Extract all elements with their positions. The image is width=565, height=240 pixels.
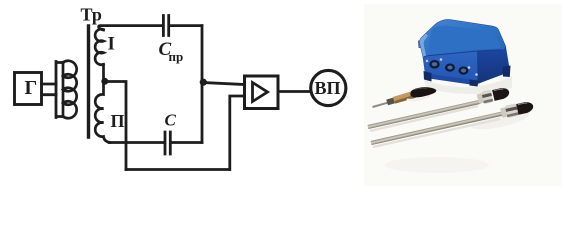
box bottom shade xyxy=(426,74,474,85)
generator G box xyxy=(15,73,42,105)
amplifier box xyxy=(245,76,279,109)
wire C branch left xyxy=(109,141,163,144)
blue box lid seam xyxy=(423,50,501,58)
blue box top face light xyxy=(420,20,506,58)
probe B fitting xyxy=(476,86,510,106)
wire amplifier output xyxy=(278,90,311,93)
photo background xyxy=(364,4,562,186)
wire amplifier lower input xyxy=(230,96,244,170)
wire right vertical node xyxy=(201,26,204,143)
wire tap to C branch xyxy=(105,82,126,170)
connector 3 xyxy=(459,67,469,75)
probe A tip xyxy=(410,87,436,97)
wire gen upper stub xyxy=(42,83,57,86)
indicator VP circle xyxy=(311,70,346,105)
box foot right xyxy=(503,66,511,78)
wire C branch right xyxy=(172,141,202,144)
floor wash xyxy=(385,157,489,173)
wire top right segment xyxy=(171,24,203,27)
probe B shadow xyxy=(370,106,478,131)
probe C shadow xyxy=(373,119,500,147)
capacitor C xyxy=(165,132,170,154)
box foot middle xyxy=(470,80,479,87)
probe B rod xyxy=(368,102,480,127)
probe C tip xyxy=(516,101,534,115)
capacitor Cpr xyxy=(163,16,168,36)
wire gen lower stub xyxy=(42,93,57,96)
transformer Tr primary winding xyxy=(63,61,77,119)
blue box mounting lug xyxy=(419,40,424,48)
probe A ferrule xyxy=(386,98,395,106)
wire node to amplifier xyxy=(203,83,244,85)
bottom rail xyxy=(126,168,230,171)
svg-text:C: C xyxy=(165,111,177,130)
probe C fitting xyxy=(500,100,535,119)
svg-text:П: П xyxy=(111,111,125,131)
probe C rod xyxy=(371,113,504,143)
blue box top-left edge highlight xyxy=(420,34,428,58)
wire primary bracket xyxy=(56,62,63,118)
svg-text:Тр: Тр xyxy=(81,5,102,25)
transformer core xyxy=(87,26,90,137)
amplifier triangle xyxy=(253,83,268,102)
probe B tip xyxy=(492,87,510,101)
transformer secondary winding I xyxy=(95,29,103,81)
svg-text:ВП: ВП xyxy=(314,78,340,98)
screw dots xyxy=(440,58,443,61)
wire top from winding xyxy=(99,26,162,30)
probe A glare xyxy=(407,95,431,101)
svg-text:Г: Г xyxy=(25,77,38,99)
transformer secondary winding П xyxy=(95,83,110,143)
svg-text:пр: пр xyxy=(169,49,184,64)
junction dot node xyxy=(200,79,207,86)
connector 1 xyxy=(429,60,439,69)
junction dot tap xyxy=(101,78,108,85)
device shadow xyxy=(424,76,512,94)
box foot left xyxy=(424,71,432,82)
probe A handle xyxy=(393,91,416,104)
blue box front face xyxy=(423,51,477,85)
blue box right face xyxy=(477,46,510,84)
blue box silhouette xyxy=(420,20,510,85)
svg-text:I: I xyxy=(108,34,115,55)
connector 2 xyxy=(445,64,455,72)
blue box lid flat area xyxy=(429,26,501,52)
probe A rod xyxy=(373,103,389,107)
